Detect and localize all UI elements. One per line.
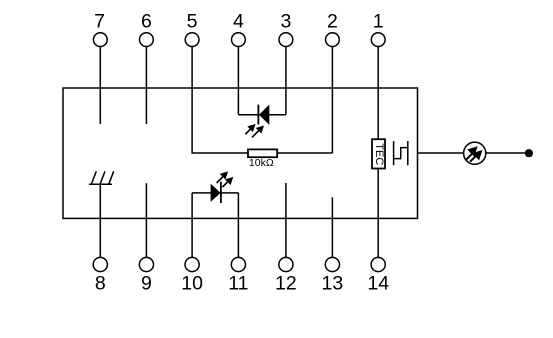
chassis ground slash 2 [100, 171, 105, 184]
pin 8 terminal circle [93, 257, 107, 271]
pin 4 terminal circle [232, 33, 246, 47]
hysteresis symbol left vertical [393, 141, 395, 165]
svg-text:4: 4 [233, 11, 244, 33]
wire resistor net pin5 to pin2 [277, 152, 332, 154]
pin 10 terminal circle [185, 257, 199, 271]
pin 10 wire [191, 193, 193, 258]
pin 11 wire [237, 193, 239, 258]
pin 13 wire [331, 197, 333, 257]
pin 7 wire [99, 47, 101, 125]
LED D2 cathode bar [220, 182, 222, 203]
pin 11 terminal circle [231, 257, 245, 271]
pin 9 wire [145, 183, 147, 257]
LED D2 light arrow 2 [223, 177, 234, 187]
pin 7 terminal circle [93, 33, 107, 47]
svg-text:1: 1 [373, 11, 384, 33]
svg-text:5: 5 [187, 11, 198, 33]
LED D2 light arrow 1 [217, 171, 229, 183]
pin 2 wire [331, 47, 333, 154]
pin 6 wire [145, 47, 147, 125]
svg-text:8: 8 [95, 273, 106, 295]
pin 14 terminal circle [371, 257, 385, 271]
pin 12 terminal circle [279, 257, 293, 271]
LED lamp arrow 1 [466, 146, 477, 159]
chassis ground slash 1 [91, 171, 96, 184]
photodiode D1 light arrow 1 [245, 124, 255, 134]
svg-text:2: 2 [327, 11, 338, 33]
hysteresis symbol step waveform [394, 148, 408, 159]
svg-text:7: 7 [94, 11, 105, 33]
svg-text:3: 3 [280, 11, 291, 33]
pin 2 terminal circle [326, 33, 340, 47]
output terminal dot [525, 149, 533, 157]
svg-text:10: 10 [181, 273, 203, 295]
svg-text:10kΩ: 10kΩ [249, 157, 274, 169]
photodiode D1 cathode bar [257, 105, 259, 125]
svg-text:14: 14 [367, 273, 389, 295]
pin 3 wire [285, 47, 287, 115]
pin 1 wire [377, 47, 379, 140]
pin 13 terminal circle [325, 257, 339, 271]
pin 1 terminal circle [371, 33, 385, 47]
pin 4 wire [237, 47, 239, 115]
chassis ground slash 3 [109, 171, 114, 184]
pin 12 wire [285, 183, 287, 257]
pin 5 wire [192, 47, 248, 154]
IC body U1 [63, 88, 418, 218]
output wire lamp to terminal [486, 152, 525, 154]
svg-text:13: 13 [322, 273, 344, 295]
pin 14 wire [377, 169, 379, 258]
LED D2 triangle [211, 184, 221, 202]
svg-text:9: 9 [141, 273, 152, 295]
wire LED net pin10 to pin11 [192, 192, 238, 194]
pin 9 terminal circle [139, 257, 153, 271]
photodiode D1 light arrow 2 [252, 126, 264, 138]
hysteresis symbol right vertical [407, 141, 409, 165]
pin 8 wire [99, 184, 101, 257]
svg-text:6: 6 [141, 11, 152, 33]
LED lamp arrow 2 [470, 150, 482, 162]
pin 6 terminal circle [140, 33, 154, 47]
pin 5 terminal circle [185, 33, 199, 47]
photodiode D1 triangle [259, 105, 269, 125]
wire photodiode anode-cathode between pin4 and pin3 [238, 114, 286, 116]
LED indicator lamp circle [464, 142, 486, 164]
svg-text:TEC: TEC [373, 143, 385, 165]
svg-text:11: 11 [228, 273, 248, 295]
pin 3 terminal circle [279, 33, 293, 47]
output wire IC to LED lamp [418, 152, 464, 154]
TEC element body [372, 139, 385, 168]
chassis ground bar [89, 183, 112, 185]
svg-text:12: 12 [275, 273, 297, 295]
resistor R1 body [248, 149, 277, 157]
